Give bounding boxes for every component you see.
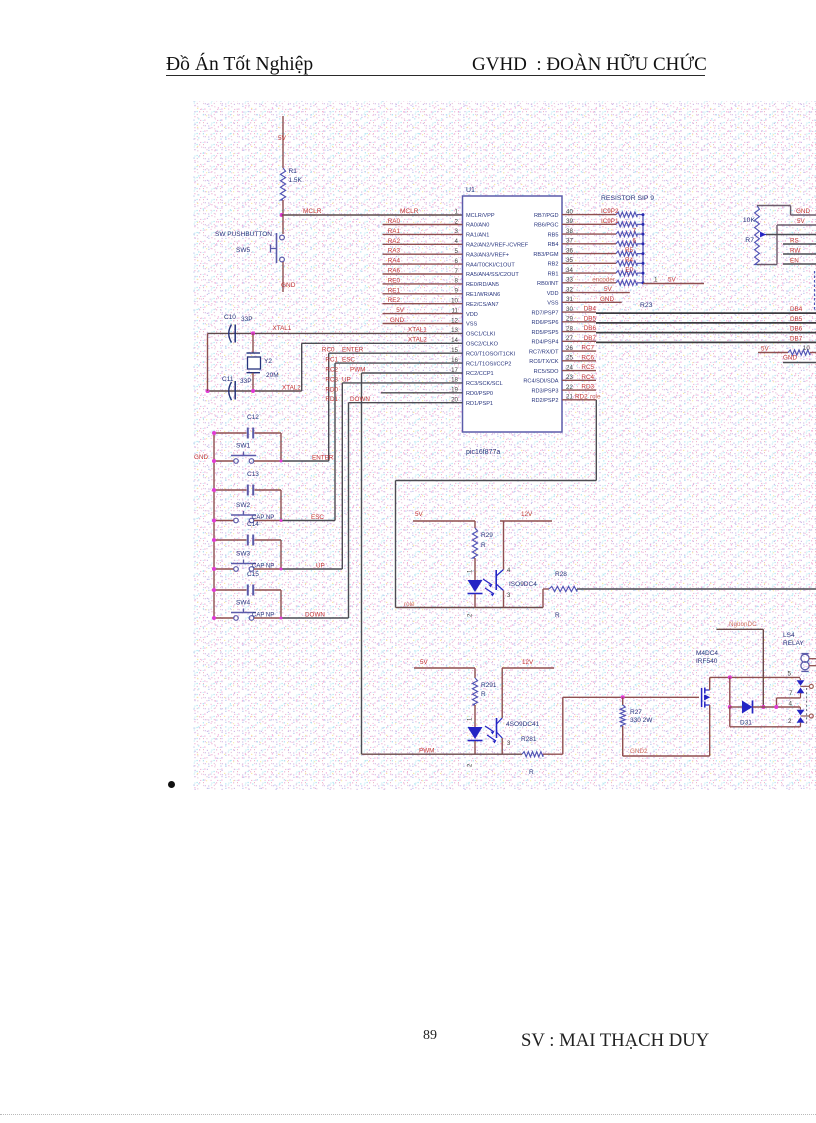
wire 5V to R291: [414, 668, 475, 678]
wire R29 to LED: [474, 558, 476, 580]
pushbutton SW1: [214, 452, 281, 464]
net label PWM (opto2): [419, 748, 434, 755]
node MCLR junction: [280, 213, 284, 217]
svg-text:330 2W: 330 2W: [630, 717, 653, 724]
value label C10 33P: [224, 314, 253, 323]
pin label 3 (opto1): [507, 593, 511, 599]
svg-text:RC4: RC4: [581, 374, 594, 381]
resistor R281: [522, 752, 543, 757]
svg-text:5V: 5V: [396, 307, 405, 314]
header underline: [166, 75, 705, 77]
svg-text:R: R: [555, 612, 560, 619]
wire NguonDC to diode node: [716, 629, 763, 707]
wire 5V to R29: [413, 521, 475, 528]
value label R28 R: [555, 571, 567, 619]
svg-text:R23: R23: [640, 302, 653, 309]
wire opto2 emitter to bottom: [501, 738, 503, 754]
opto-coupler ISO9DC4 transistor: [496, 570, 503, 591]
svg-text:encoder: encoder: [592, 276, 615, 283]
net label role pin 21: [590, 393, 601, 400]
svg-text:RD1: RD1: [325, 396, 338, 403]
svg-text:DB4: DB4: [584, 306, 597, 313]
capacitor C11: [229, 381, 235, 400]
wire DB4 stub pin 30: [562, 311, 596, 313]
power label 12V (opto2): [522, 659, 534, 666]
label SW2: [236, 502, 250, 509]
svg-text:DB7: DB7: [584, 335, 597, 342]
svg-text:RC6: RC6: [581, 354, 594, 361]
svg-text:R7: R7: [745, 237, 754, 244]
wire 5V to contrast resistor: [758, 352, 788, 354]
svg-text:RE2/CS/AN7: RE2/CS/AN7: [466, 302, 499, 308]
resistor SIP element pin 38: [562, 232, 643, 237]
svg-text:RS: RS: [790, 238, 799, 245]
wire relay pin 2 row: [730, 707, 801, 727]
net label RC0 pin 15: [322, 347, 335, 354]
svg-text:1: 1: [455, 208, 459, 215]
value label R291 R: [481, 682, 497, 698]
value label D31: [740, 720, 752, 727]
wire R28 output to page edge: [577, 588, 816, 590]
net label XTAL1 (left): [273, 325, 292, 332]
resistor R291: [472, 678, 477, 705]
svg-text:ESC: ESC: [311, 514, 324, 521]
ground label GND2: [630, 748, 648, 755]
svg-text:RE1/WR/AN6: RE1/WR/AN6: [466, 292, 500, 298]
svg-text:EN: EN: [790, 258, 799, 265]
pushbutton SW4: [214, 609, 281, 621]
svg-text:IC9P2: IC9P2: [601, 208, 619, 215]
svg-text:GND: GND: [796, 208, 810, 215]
svg-text:RD6/PSP6: RD6/PSP6: [531, 320, 558, 326]
U1 right pin names: [523, 213, 559, 404]
svg-text:RD0/PSP0: RD0/PSP0: [466, 391, 493, 397]
wire DB7 stub pin 27: [562, 340, 596, 342]
wires RA0-RE2,VDD,VSS stubs to U1 left pins 2-12: [383, 225, 463, 324]
value label C14: [247, 521, 259, 528]
svg-text:RD0: RD0: [325, 386, 338, 393]
svg-text:U1: U1: [466, 187, 475, 194]
U1 left pin names: [466, 213, 529, 407]
svg-text:CAP NP: CAP NP: [252, 613, 274, 619]
svg-text:E0: E0: [625, 267, 633, 274]
op-amp U1 microcontroller pic16f877a body: [463, 196, 563, 432]
svg-text:RB2: RB2: [548, 262, 559, 268]
opto-coupler 4SO9DC41 light arrows: [485, 726, 496, 744]
power label 5V (opto2): [420, 659, 429, 666]
label SW5: [236, 247, 250, 254]
svg-text:XTAL1: XTAL1: [408, 326, 427, 333]
svg-text:RD2/PSP2: RD2/PSP2: [531, 398, 558, 404]
LED of optocoupler U-role: [468, 580, 483, 608]
wire R281 to gate node: [543, 697, 563, 754]
svg-text:DB7: DB7: [790, 335, 803, 342]
relay contact pin 5-7: [797, 678, 814, 698]
net label R4 pin 35: [625, 257, 634, 264]
pin label 1 (opto2): [468, 717, 474, 721]
svg-text:C14: C14: [247, 521, 259, 528]
svg-text:RC5/SDO: RC5/SDO: [534, 369, 560, 375]
svg-text:Y2: Y2: [264, 358, 272, 365]
reference label R7: [745, 237, 754, 244]
svg-text:R27: R27: [630, 709, 642, 716]
svg-text:RC1: RC1: [325, 357, 338, 364]
svg-text:RC5: RC5: [581, 364, 594, 371]
svg-text:RC4/SDI/SDA: RC4/SDI/SDA: [523, 379, 558, 385]
svg-text:RA1: RA1: [388, 228, 401, 235]
wire crystal left rail: [207, 333, 209, 391]
wire EN to LCD: [783, 263, 816, 265]
label ISO9DC4: [509, 581, 537, 588]
node drain junction: [728, 675, 732, 679]
value label CAP NP (C15): [252, 613, 274, 619]
label R23: [640, 302, 653, 309]
wire DB4 bus line: [596, 312, 816, 314]
svg-text:RD3: RD3: [581, 384, 594, 391]
net label DB5 (right): [790, 316, 803, 323]
opto-coupler 4SO9DC41 transistor: [497, 718, 503, 738]
ground label GND (reset): [281, 282, 296, 289]
net label RD1 pin 20: [325, 396, 338, 403]
wire ESC net from U1 pin 16: [335, 363, 463, 520]
svg-text:RA4: RA4: [388, 258, 401, 265]
svg-text:1: 1: [654, 277, 658, 284]
net label MCLR (left): [303, 208, 322, 215]
net label DB4 (right): [790, 306, 803, 313]
power label 5V (opto1): [415, 511, 424, 518]
svg-text:DB6: DB6: [584, 325, 597, 332]
wire GND line (contrast): [783, 362, 816, 364]
relay actuator dashed line: [806, 688, 808, 726]
svg-text:RC3/SCK/SCL: RC3/SCK/SCL: [466, 381, 503, 387]
power label 5V (LCD): [797, 218, 806, 225]
svg-text:OSC1/CLKI: OSC1/CLKI: [466, 332, 496, 338]
net label RC1 pin 16: [325, 357, 338, 364]
svg-text:ENTER: ENTER: [342, 347, 364, 354]
capacitor C15: [214, 585, 281, 619]
net label role (opto): [404, 601, 415, 608]
svg-text:D31: D31: [740, 720, 752, 727]
value label C11 33P: [222, 376, 252, 385]
wire 5V rail to R1 (reset): [282, 116, 284, 168]
svg-text:7: 7: [632, 228, 636, 235]
net label E0 pin 34: [625, 267, 633, 274]
svg-text:VSS: VSS: [466, 322, 477, 328]
net label ENTER (switch): [312, 455, 334, 462]
svg-text:RE2: RE2: [388, 297, 401, 304]
value label CAP NP (C14): [252, 564, 274, 570]
wire 12V to opto2 collector: [502, 668, 554, 718]
wire DB7 bus line: [596, 341, 816, 343]
wire UP row to route: [281, 568, 342, 570]
resistor SIP element pin 33: [562, 280, 643, 285]
svg-text:R28: R28: [555, 571, 567, 578]
pin label 1 (opto1): [468, 569, 474, 573]
wire 12V to opto1 collector: [500, 521, 552, 570]
svg-text:RC1/T1OSI/CCP2: RC1/T1OSI/CCP2: [466, 361, 511, 367]
svg-text:GND: GND: [194, 454, 208, 461]
net label DB6 (right): [790, 326, 803, 333]
svg-text:R4: R4: [625, 257, 634, 264]
svg-text:RA1/AN1: RA1/AN1: [466, 233, 489, 239]
svg-text:RA0/AN0: RA0/AN0: [466, 223, 489, 229]
potentiometer R7 10K: [755, 206, 766, 265]
svg-text:4: 4: [789, 701, 793, 708]
svg-text:RC2: RC2: [325, 367, 338, 374]
wire DOWN row to route: [281, 617, 349, 619]
crystal Y2: [247, 333, 261, 391]
label Y2: [264, 358, 272, 365]
svg-text:MCLR: MCLR: [400, 208, 419, 215]
svg-text:RA2/AN2/VREF-/CVREF: RA2/AN2/VREF-/CVREF: [466, 243, 529, 249]
svg-text:GND: GND: [600, 296, 614, 303]
value label R1 1.5K: [289, 168, 303, 184]
svg-text:RE0: RE0: [388, 277, 401, 284]
svg-text:10K: 10K: [743, 217, 756, 224]
wire XTAL2 route to U1 pin 14: [302, 343, 463, 391]
capacitor C13: [214, 485, 281, 521]
pin label 2 (relay): [788, 718, 792, 725]
svg-text:SW5: SW5: [236, 247, 250, 254]
LCD connector dashed edge: [814, 271, 816, 310]
svg-text:RB0/INT: RB0/INT: [537, 281, 559, 287]
svg-text:R: R: [481, 691, 486, 698]
capacitor C14: [214, 535, 281, 570]
node XTAL1 junction: [251, 331, 255, 335]
label LS4 RELAY: [783, 632, 804, 647]
svg-text:7: 7: [789, 690, 793, 697]
wire RC5 stub pin 24: [562, 370, 596, 372]
net label XTAL2 (near chip): [408, 336, 427, 343]
svg-text:RA2: RA2: [388, 238, 401, 245]
net label ESC (switch): [311, 514, 324, 521]
wire R7 wiper to LCD V0: [766, 234, 816, 236]
svg-text:C12: C12: [247, 414, 259, 421]
net label MCLR (near chip): [400, 208, 419, 215]
power label 5V pin 11: [396, 307, 405, 314]
value label R (R281): [529, 769, 534, 776]
svg-text:RD5/PSP5: RD5/PSP5: [531, 330, 558, 336]
svg-text:ENTER: ENTER: [312, 455, 334, 462]
net label RD3: [581, 384, 594, 391]
svg-text:RB5: RB5: [548, 232, 559, 238]
svg-text:RD7/PSP7: RD7/PSP7: [531, 310, 558, 316]
wire ESC row to route: [281, 520, 335, 522]
svg-text:C10: C10: [224, 314, 236, 321]
wire R291 to LED: [474, 705, 476, 727]
net label XTAL1 (near chip): [408, 326, 427, 333]
net label DOWN (switch): [305, 612, 325, 619]
net label ESC pin 16: [342, 357, 355, 364]
svg-text:MCLR: MCLR: [303, 208, 322, 215]
wire XTAL2 row: [208, 390, 302, 392]
net label 7 pin 38: [632, 228, 636, 235]
wire relay pin 7 link: [777, 698, 801, 707]
net label IC9P1 pin 39: [601, 218, 619, 225]
svg-text:RA5/AN4/SS/C2OUT: RA5/AN4/SS/C2OUT: [466, 272, 519, 278]
power label 5V (reset): [278, 135, 287, 142]
wire SIP common vertical: [642, 215, 644, 284]
wire DOWN net from U1 pin 20: [349, 403, 463, 618]
svg-text:5: 5: [788, 671, 792, 678]
ground label GND pin 12: [390, 317, 404, 324]
svg-text:RC3: RC3: [325, 376, 338, 383]
resistor SIP element pin 36: [562, 251, 643, 256]
value label R281: [521, 736, 537, 743]
svg-text:5V: 5V: [415, 511, 424, 518]
svg-text:R: R: [529, 769, 534, 776]
value label C12: [247, 414, 259, 421]
pushbutton SW3: [214, 560, 281, 572]
net label DOWN pin 20: [350, 396, 370, 403]
label SW4: [236, 600, 250, 607]
svg-text:RC0/T1OSO/T1CKI: RC0/T1OSO/T1CKI: [466, 351, 516, 357]
svg-text:SW4: SW4: [236, 600, 250, 607]
svg-text:RC2/CCP1: RC2/CCP1: [466, 371, 494, 377]
wire switch bank left rail: [213, 433, 215, 618]
junction dots row SW2: [212, 488, 283, 523]
value label CAP NP (C13): [252, 515, 274, 521]
bullet point: [168, 781, 175, 788]
wire SW5 to GND: [282, 262, 284, 292]
value label pic16f877a: [466, 449, 500, 456]
capacitor C12: [214, 428, 281, 462]
U1 right pin numbers 21-40: [566, 208, 573, 400]
svg-text:6: 6: [632, 237, 636, 244]
svg-text:4SO9DC41: 4SO9DC41: [506, 721, 540, 728]
resistor R29: [472, 528, 477, 558]
pin label 1 (SIP): [654, 277, 658, 284]
svg-text:C11: C11: [222, 376, 234, 383]
power label NguonDC: [729, 621, 757, 628]
resistor SIP element pin 37: [562, 241, 643, 246]
node relay row junctions: [774, 705, 778, 709]
wire GND stub pin 31: [562, 301, 622, 303]
label SW3: [236, 551, 250, 558]
wire DB6 stub pin 28: [562, 331, 596, 333]
wire gate drive to MOSFET: [563, 696, 699, 698]
wire PWM bottom row: [362, 753, 523, 755]
wire DB5 bus line: [596, 322, 816, 324]
svg-text:C15: C15: [247, 571, 259, 578]
svg-text:5V: 5V: [797, 218, 806, 225]
svg-text:ESC: ESC: [342, 357, 355, 364]
junction dots row SW1: [212, 431, 283, 463]
wire opto1 emitter to bottom: [503, 591, 505, 608]
svg-text:DB6: DB6: [790, 326, 803, 333]
wire RC4 stub pin 23: [562, 379, 596, 381]
wire DB6 bus line: [596, 332, 816, 334]
net label RC3 pin 18: [325, 376, 338, 383]
svg-text:RB6/PGC: RB6/PGC: [534, 223, 559, 229]
pushbutton SW5: [271, 233, 285, 263]
svg-text:RC0: RC0: [322, 347, 335, 354]
resistor R27: [620, 697, 625, 756]
header right: advisor name: [472, 54, 707, 76]
wire GND2 rail: [623, 755, 710, 757]
node XTAL2 junctions: [206, 389, 256, 393]
svg-text:5V: 5V: [278, 135, 287, 142]
svg-text:20M: 20M: [266, 372, 279, 379]
relay contact pin 4-2: [797, 707, 814, 727]
net label RC7: [581, 345, 594, 352]
svg-text:RESISTOR SIP 9: RESISTOR SIP 9: [601, 195, 654, 202]
svg-text:2: 2: [788, 718, 792, 725]
svg-text:RELAY: RELAY: [783, 640, 804, 647]
svg-text:GND2: GND2: [630, 748, 648, 755]
value label R27 330 2W: [630, 709, 653, 724]
label SW1: [236, 443, 250, 450]
wire RC6 stub pin 25: [562, 360, 596, 362]
net label PWM pin 17: [350, 367, 365, 374]
svg-text:RB3/PGM: RB3/PGM: [533, 252, 559, 258]
svg-text:PWM: PWM: [350, 367, 365, 374]
net label DB6 (left): [584, 325, 597, 332]
svg-text:UP: UP: [342, 376, 351, 383]
ground label GND (LCD): [796, 208, 810, 215]
wire RC7 stub pin 26: [562, 350, 596, 352]
svg-text:XTAL2: XTAL2: [282, 385, 301, 392]
net label RC5: [581, 364, 594, 371]
svg-text:VDD: VDD: [466, 312, 478, 318]
wire UP net from U1 pin 18: [342, 383, 462, 569]
header left: document title: [166, 54, 313, 76]
resistor SIP element pin 40: [562, 212, 643, 217]
pin label 5 (relay): [788, 671, 792, 678]
svg-text:M4DC4: M4DC4: [696, 650, 718, 657]
svg-text:33P: 33P: [240, 378, 252, 385]
net labels RA0-RA6,RE0-RE2 pins 2-10: [388, 218, 401, 304]
value label 10: [803, 346, 810, 352]
net label ENTER pin 15: [342, 347, 364, 354]
value label R29 R: [481, 532, 493, 549]
svg-text:RB1: RB1: [548, 271, 559, 277]
wire bottom row to R28: [543, 589, 549, 608]
svg-text:RB7/PGD: RB7/PGD: [534, 213, 559, 219]
svg-text:XTAL1: XTAL1: [273, 325, 292, 332]
net label DB7 (right): [790, 335, 803, 342]
node diode junctions: [728, 705, 766, 709]
wire XTAL1 net to U1 pin 13: [208, 332, 463, 334]
svg-text:RD4/PSP4: RD4/PSP4: [531, 340, 558, 346]
svg-text:VDD: VDD: [547, 291, 559, 297]
pin label 4 (opto1): [507, 568, 511, 574]
wire MCLR net to U1 pin 1: [282, 214, 463, 216]
ground label GND (switch bank): [194, 454, 208, 461]
footer student name: [521, 1030, 709, 1052]
svg-text:RD2: RD2: [575, 393, 588, 400]
net label IC9P2 pin 40: [601, 208, 619, 215]
wire RW to LCD: [783, 253, 816, 255]
svg-text:LS4: LS4: [783, 632, 795, 639]
wire R1 to MCLR node: [282, 200, 284, 215]
wire MOSFET drain to relay pin 5: [710, 676, 800, 678]
net label RC2 pin 17: [325, 367, 338, 374]
svg-text:XTAL2: XTAL2: [408, 336, 427, 343]
net label RD2 pin 21: [575, 393, 588, 400]
wire ENTER row to route: [281, 460, 329, 462]
svg-text:DOWN: DOWN: [350, 396, 370, 403]
net label RW: [790, 248, 800, 255]
svg-text:SW3: SW3: [236, 551, 250, 558]
svg-text:MCLR/VPP: MCLR/VPP: [466, 213, 495, 219]
diode D31: [730, 701, 800, 714]
resistor SIP element pin 35: [562, 261, 643, 266]
junction dots row SW3: [212, 538, 283, 571]
svg-text:5V: 5V: [668, 277, 677, 284]
net label 6 pin 37: [632, 237, 636, 244]
wire R7 bottom to 5V: [757, 225, 816, 265]
